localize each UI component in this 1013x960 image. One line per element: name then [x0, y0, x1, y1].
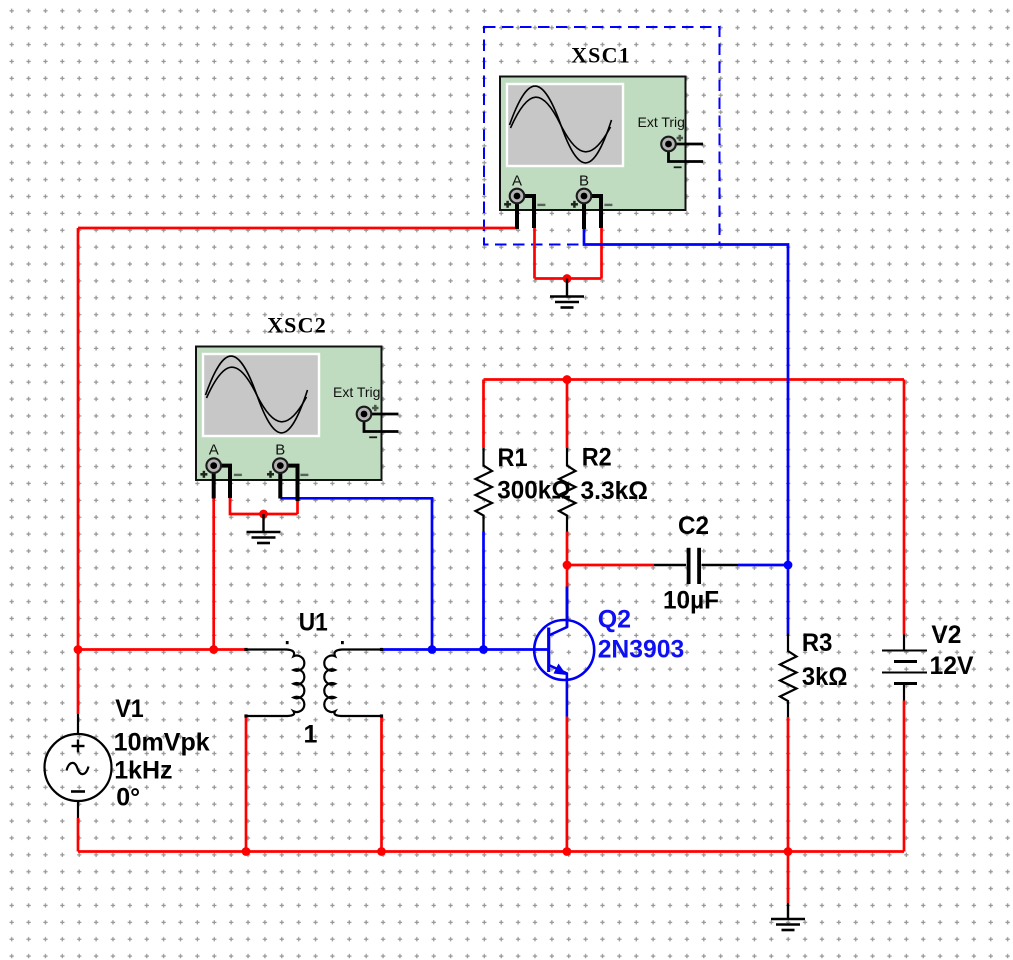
XSC2 ext trig wires [364, 414, 399, 432]
XSC1 pigtail B [584, 196, 601, 229]
Q2 emitter arrow [554, 664, 567, 676]
wire: U1 secondary to Q2 base [382, 648, 549, 651]
wire: V2 negative riser [903, 701, 906, 852]
svg-text:300kΩ: 300kΩ [497, 477, 571, 505]
U1 phase dot primary [286, 641, 289, 644]
XSC2 pigtail A [214, 466, 230, 499]
wire: R3 bottom to rail [787, 717, 790, 852]
wire: XSC1 A- drop [533, 228, 536, 279]
wire: R2 bottom to collector node [566, 532, 569, 566]
svg-text:V2: V2 [931, 621, 961, 649]
svg-text:B: B [579, 173, 589, 190]
svg-text:2N3903: 2N3903 [598, 636, 685, 664]
wire: XSC1 ground link [535, 277, 602, 280]
XSC2 terminal Ext [357, 407, 372, 422]
svg-text:C2: C2 [678, 512, 709, 540]
svg-text:10mVpk: 10mVpk [114, 729, 210, 757]
svg-text:A: A [512, 173, 522, 190]
svg-text:1: 1 [304, 721, 318, 749]
wire: V1 bottom to rail [77, 818, 80, 852]
svg-text:Q2: Q2 [598, 606, 631, 634]
svg-text:R3: R3 [802, 629, 833, 657]
XSC2 terminal B [273, 458, 288, 473]
svg-text:12V: 12V [930, 652, 974, 680]
wire: collector pin blue [566, 587, 569, 627]
svg-text:A: A [209, 442, 219, 459]
wire: Q2 emitter to rail [566, 717, 569, 852]
svg-text:U1: U1 [299, 609, 328, 637]
svg-text:V1: V1 [115, 695, 144, 723]
resistor R3 [780, 634, 797, 718]
svg-text:3kΩ: 3kΩ [802, 663, 848, 691]
wire: XSC2 A+ drop [212, 498, 215, 650]
XSC1 labels [512, 114, 685, 190]
wire: XSC2 B- drop [296, 501, 299, 515]
junction dot top rail R2 [563, 375, 572, 384]
wire: XSC1 B+ blue drop [584, 228, 788, 565]
XSC2 terminal A [206, 458, 221, 473]
wire: C2 right to output node [738, 564, 788, 567]
resistor R2 [559, 448, 576, 532]
resistor R1 [476, 448, 493, 532]
wire: V1+ net horizontal to XSC1 A+ [78, 227, 517, 230]
XSC1 pigtail A [517, 196, 534, 229]
ground XSC2 [247, 514, 281, 543]
XSC1 terminal B [577, 189, 592, 204]
junction dot base node R1 [479, 645, 488, 654]
oscilloscope XSC2 body [196, 347, 382, 481]
svg-text:B: B [275, 442, 285, 459]
wire: collector node down [566, 565, 569, 587]
wire: XSC1 B- drop [600, 228, 603, 279]
wire: top rail to R2 [566, 380, 569, 449]
svg-text:10µF: 10µF [663, 587, 719, 615]
svg-text:Ext Trig: Ext Trig [638, 114, 685, 130]
XSC1 terminal Ext [661, 137, 676, 152]
XSC2 labels [209, 384, 381, 459]
transistor Q2 [534, 587, 594, 717]
wire: V1 top lead [77, 650, 80, 715]
battery V2 [882, 635, 927, 701]
XSC1 ext trig wires [669, 144, 704, 162]
svg-text:1kHz: 1kHz [114, 757, 172, 785]
wire: output node to R3 [787, 565, 790, 635]
ground XSC1 [550, 279, 584, 308]
svg-text:XSC2: XSC2 [267, 313, 327, 338]
junction dot output node [784, 561, 793, 570]
U1 phase dot secondary [341, 641, 344, 644]
wire: top rail to R1 [482, 380, 485, 449]
U1 pin end squares [244, 648, 383, 718]
junction dot rail U1 primary [242, 847, 251, 856]
junction dot XSC2 gnd [259, 510, 268, 519]
AC source V1 [45, 714, 112, 818]
XSC2 pigtail B [280, 466, 297, 501]
junction dot XSC1 gnd [563, 274, 572, 283]
wire: U1 secondary bottom to rail [380, 716, 383, 852]
wire: V1+ to U1 primary [78, 648, 246, 651]
svg-text:Ext Trig: Ext Trig [333, 384, 380, 400]
wire: XSC2 A- drop [230, 498, 298, 514]
svg-text:0°: 0° [116, 784, 140, 812]
junction dot V1 top [74, 645, 83, 654]
XSC1 terminal A [510, 189, 525, 204]
wire: ground stub below rail [787, 852, 790, 904]
junction dot rail emitter [563, 847, 572, 856]
oscilloscope XSC1 body [500, 77, 686, 211]
capacitor C2 [654, 548, 738, 584]
junction dot XSC2 A+ [209, 645, 218, 654]
wire: V2 positive to top rail [903, 380, 906, 635]
junction dot collector node [563, 561, 572, 570]
junction dot base node XSC2 B [428, 645, 437, 654]
selection box around XSC1 [484, 27, 720, 245]
wire: collector node to C2 [567, 564, 654, 567]
XSC1 plus minus marks [504, 135, 683, 208]
wire: R1 bottom to base node [482, 532, 485, 650]
junction dot rail U1 secondary [377, 847, 386, 856]
wire: XSC2 B+ to base node [280, 498, 432, 649]
XSC2 plus minus marks [200, 405, 378, 478]
svg-text:R1: R1 [498, 444, 528, 472]
transformer U1 secondary [324, 650, 381, 717]
wire: V1+ net left vertical [77, 228, 80, 650]
svg-text:3.3kΩ: 3.3kΩ [581, 477, 649, 505]
wire: VCC top rail [484, 378, 905, 381]
svg-text:R2: R2 [582, 444, 612, 472]
junction dot rail ground [784, 847, 793, 856]
wire: ground bottom rail [78, 850, 904, 853]
transformer U1 primary [246, 650, 304, 717]
svg-text:XSC1: XSC1 [571, 43, 631, 68]
ground bottom [771, 903, 805, 930]
wire: U1 primary bottom to rail [245, 716, 248, 852]
